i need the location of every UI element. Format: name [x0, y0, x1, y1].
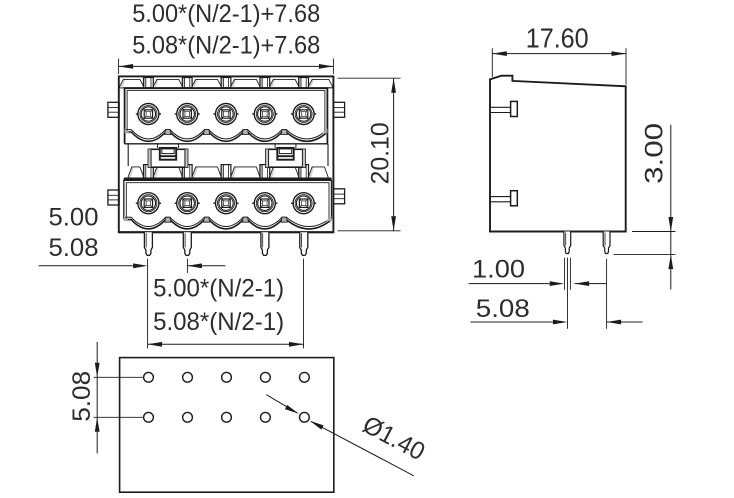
drill hole: [183, 372, 193, 382]
dim front width: [118, 59, 120, 75]
drill hole: [261, 372, 271, 382]
scallop cusp block: [281, 217, 287, 222]
strip slot: [182, 165, 184, 179]
svg-text:5.08: 5.08: [476, 295, 530, 323]
strip panel: [120, 79, 125, 87]
svg-text:20.10: 20.10: [367, 122, 395, 184]
lower block bottom edge: [119, 231, 334, 233]
strip slot: [144, 78, 146, 88]
screw terminal at 187,114: [175, 104, 200, 125]
dim 1.00: [469, 283, 550, 285]
pin: [603, 232, 610, 254]
dim 3.00: [632, 231, 676, 233]
strip panel: [231, 167, 236, 178]
screw terminal at 226,114: [213, 104, 238, 125]
strip panel: [231, 79, 236, 87]
lower block top edge: [124, 177, 332, 180]
strip panel: [193, 167, 198, 178]
strip slot: [260, 78, 262, 88]
strip panel: [154, 167, 159, 178]
footprint outline: [120, 358, 334, 493]
pin: [144, 232, 152, 255]
scalloped edge: [124, 220, 332, 229]
svg-text:5.08: 5.08: [68, 371, 96, 422]
pin: [261, 232, 269, 255]
dim 20.10: [338, 77, 401, 79]
scalloped edge: [125, 132, 328, 141]
latch at x 286: [266, 144, 305, 167]
screw terminal at 304,203: [291, 193, 316, 214]
strip slot: [221, 165, 223, 179]
pin edge extension: [564, 258, 566, 290]
drill hole: [222, 372, 232, 382]
top strip bottom edge: [119, 87, 334, 89]
drill hole: [261, 412, 271, 422]
dim span N/2-1: [303, 259, 305, 349]
mounting tab: [108, 102, 119, 117]
svg-text:5.08*(N/2-1)+7.68: 5.08*(N/2-1)+7.68: [132, 32, 320, 60]
drill hole: [183, 412, 193, 422]
pin: [300, 232, 308, 255]
svg-text:3.00: 3.00: [640, 123, 668, 184]
svg-text:17.60: 17.60: [526, 23, 589, 54]
strip panel: [193, 79, 198, 87]
scalloped edge: [124, 217, 332, 226]
mounting tab: [108, 190, 119, 205]
scallop cusp block: [204, 217, 210, 222]
strip panel: [154, 79, 159, 87]
screw terminal at 187,203: [175, 193, 200, 214]
latch at x 168: [148, 144, 187, 167]
strip slot: [182, 78, 184, 88]
scallop cusp block: [242, 217, 248, 222]
strip slot: [299, 78, 301, 88]
drill hole: [300, 372, 310, 382]
scallop cusp block: [281, 130, 287, 135]
svg-text:5.00: 5.00: [49, 203, 99, 231]
pin centre extension: [606, 259, 608, 329]
pin centre extension: [567, 258, 569, 329]
svg-text:5.08*(N/2-1): 5.08*(N/2-1): [153, 308, 284, 336]
screw terminal at 265,203: [252, 193, 277, 214]
middle band top edge: [125, 143, 328, 145]
drill hole: [144, 372, 154, 382]
strip panel: [129, 167, 134, 178]
svg-text:1.00: 1.00: [472, 256, 525, 284]
screw terminal at 226,203: [213, 193, 238, 214]
strip panel: [270, 79, 275, 87]
strip slot: [144, 165, 146, 179]
side body outline: [490, 76, 626, 232]
scallop cusp block: [165, 217, 171, 222]
screw terminal at 148,114: [136, 104, 161, 125]
scallop cusp block: [204, 130, 210, 135]
pin: [564, 232, 571, 254]
strip panel: [270, 167, 275, 178]
scalloped edge: [125, 130, 328, 139]
side tab: [511, 101, 518, 116]
mounting tab: [333, 189, 344, 204]
screw terminal at 265,114: [252, 104, 277, 125]
scallop cusp block: [165, 130, 171, 135]
pin: [183, 232, 191, 255]
dim 17.60: [491, 48, 493, 77]
screw terminal at 304,114: [291, 104, 316, 125]
svg-text:5.00*(N/2-1): 5.00*(N/2-1): [153, 274, 284, 302]
dim pitch 5.08: [39, 265, 133, 267]
drill hole: [300, 412, 310, 422]
svg-text:5.08: 5.08: [49, 234, 99, 262]
strip slot: [221, 78, 223, 88]
scallop cusp block: [242, 130, 248, 135]
scallop end wedges: [124, 216, 130, 221]
dim side 5.08: [471, 321, 553, 323]
scallop end wedges: [125, 129, 131, 134]
drill hole: [144, 412, 154, 422]
upper compartment walls: [125, 88, 328, 144]
leader dia 1.40: [266, 395, 297, 413]
strip panel: [309, 79, 314, 87]
mounting tab: [333, 102, 344, 117]
strip panel: [309, 167, 314, 178]
side tab: [511, 191, 518, 206]
pin edge extension: [569, 258, 571, 290]
svg-text:5.00*(N/2-1)+7.68: 5.00*(N/2-1)+7.68: [132, 0, 320, 28]
strip slot: [260, 165, 262, 179]
screw terminal at 148,203: [136, 193, 161, 214]
strip slot: [299, 165, 301, 179]
dim footprint 5.08: [94, 376, 144, 378]
connector body outline: [119, 76, 334, 232]
drill hole: [222, 412, 232, 422]
